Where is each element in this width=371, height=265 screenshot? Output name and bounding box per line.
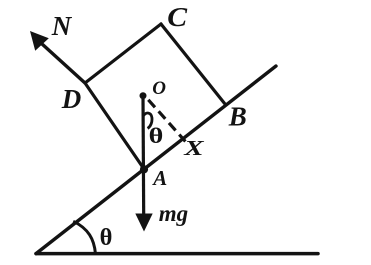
ground line (horizontal base)	[36, 252, 318, 256]
normal force arrow N (head)	[30, 31, 49, 51]
svg-text:C: C	[167, 3, 188, 32]
svg-text:O: O	[152, 78, 166, 99]
point A (dot)	[140, 165, 148, 173]
center point O (dot)	[140, 92, 147, 99]
dashed line O to X	[148, 100, 185, 142]
svg-text:θ: θ	[149, 124, 164, 148]
svg-text:B: B	[228, 101, 247, 131]
svg-text:A: A	[151, 166, 167, 190]
weight arrow mg (head)	[135, 214, 152, 232]
block edge D-C	[85, 24, 161, 83]
angle arc at incline base	[73, 221, 95, 253]
line of action O to A (vertical)	[141, 96, 145, 216]
angle arc at O	[143, 113, 152, 128]
svg-text:θ: θ	[100, 224, 113, 251]
block edge A-D	[85, 83, 144, 169]
svg-text:N: N	[51, 11, 73, 41]
svg-text:mg: mg	[159, 201, 188, 226]
incline surface line	[36, 66, 276, 254]
svg-text:D: D	[61, 84, 82, 114]
svg-text:X: X	[183, 137, 205, 160]
normal force arrow N (shaft)	[42, 44, 86, 84]
block edge C-B	[161, 24, 225, 104]
